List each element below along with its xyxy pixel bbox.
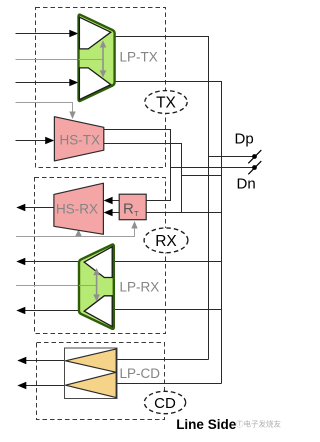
switch lever Dp xyxy=(248,150,261,163)
wire: HS-TX output 1 down to RT upper wire xyxy=(104,130,171,201)
wire: Dn switch line from V1 xyxy=(171,167,253,169)
wire: connector V2 to V4 xyxy=(182,175,222,177)
wire: gray level line into LP-TX xyxy=(16,59,104,61)
svg-text:Ⓣ电子发烧友: Ⓣ电子发烧友 xyxy=(236,419,281,429)
gray arrow into RT bottom xyxy=(131,221,137,229)
wire: LP-RX input 2 from V4 xyxy=(114,309,222,311)
wire: RT to HS-RX lower arrow xyxy=(111,212,119,214)
LP-RX gray double arrow xyxy=(96,274,98,297)
node CD ellipse xyxy=(144,391,185,413)
block LP-TX body xyxy=(79,15,115,101)
switch dot Dn xyxy=(252,165,257,170)
svg-text:HS-TX: HS-TX xyxy=(60,133,101,148)
wire: HS-RX output arrow left xyxy=(24,207,54,209)
LP-TX gray double arrow xyxy=(102,46,104,73)
switch lever Dn xyxy=(248,161,261,174)
wire: LP-RX output 1 arrow left xyxy=(24,261,82,263)
gray arrow into HS-RX bottom xyxy=(78,234,80,237)
block LP-RX body xyxy=(79,244,114,328)
wire: RT to HS-RX upper arrow xyxy=(111,200,119,202)
LP-CD detector triangle bottom xyxy=(66,372,117,397)
node TX ellipse xyxy=(145,91,187,114)
svg-text:TX: TX xyxy=(156,95,176,112)
switch dot Dp xyxy=(252,154,257,159)
wire: HS-TX output 2 down to V2 xyxy=(104,144,182,213)
svg-text:CD: CD xyxy=(154,395,176,412)
LP-TX driver triangle bottom xyxy=(79,68,110,100)
wire: LP-TX output 2 to bus V4 xyxy=(115,82,222,384)
wire: input arrow 1 into LP-TX xyxy=(16,33,71,35)
block HS-TX body xyxy=(54,117,103,161)
svg-text:LP-CD: LP-CD xyxy=(120,366,161,381)
svg-text:T: T xyxy=(134,209,139,218)
svg-text:RX: RX xyxy=(155,233,177,250)
TX section dashed box xyxy=(36,8,166,168)
wire: gray level line into LP-RX xyxy=(16,285,97,287)
wire: LP-CD output 1 arrow left xyxy=(25,360,65,362)
wire: LP-CD output 2 arrow left xyxy=(25,385,65,387)
block LP-CD body xyxy=(65,348,118,399)
wire: LP-RX input 1 from V4 xyxy=(114,261,222,263)
wire: RT lower wire to V4 xyxy=(146,212,221,214)
wire: LP-CD input 1 from V3 xyxy=(117,359,209,361)
RX section dashed box xyxy=(35,178,166,334)
wire: gray level line segment inside LP-RX xyxy=(79,285,97,287)
wire: LP-CD input 2 from V4 xyxy=(117,383,222,385)
wire: input arrow into HS-TX xyxy=(16,140,47,142)
LP-RX receiver triangle top xyxy=(84,247,112,278)
resistor RT block xyxy=(119,194,146,220)
LP-TX driver triangle top xyxy=(79,17,110,49)
wire: gray control line into HS-TX top xyxy=(16,103,73,113)
svg-text:Dp: Dp xyxy=(235,131,254,148)
wire: gray level line segment inside LP-TX xyxy=(79,59,104,61)
node RX ellipse xyxy=(144,228,188,253)
svg-text:Line Side: Line Side xyxy=(176,417,237,432)
svg-text:HS-RX: HS-RX xyxy=(56,202,98,217)
block HS-RX body xyxy=(54,183,104,234)
CD section dashed box xyxy=(37,343,165,420)
svg-text:R: R xyxy=(123,201,134,218)
wire: LP-RX output 2 arrow left xyxy=(24,310,82,312)
wire: LP-TX output 1 to bus V3 xyxy=(115,37,209,360)
svg-text:Dn: Dn xyxy=(237,176,256,193)
svg-text:LP-TX: LP-TX xyxy=(120,50,158,65)
svg-text:LP-RX: LP-RX xyxy=(120,280,160,295)
LP-CD detector triangle top xyxy=(66,349,117,372)
wire: Dp switch line from V3 xyxy=(209,156,253,158)
LP-RX receiver triangle bottom xyxy=(84,296,112,327)
wire: input arrow 2 into LP-TX xyxy=(16,82,71,84)
wire: gray enable line to HS-RX and RT xyxy=(16,229,135,237)
